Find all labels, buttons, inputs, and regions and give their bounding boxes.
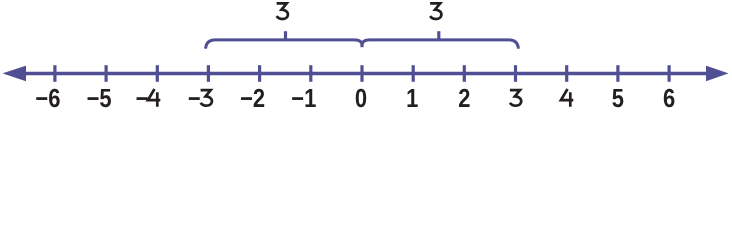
brace right middle tick	[437, 31, 440, 41]
tick 3	[514, 65, 517, 82]
tick -5	[104, 65, 107, 82]
tick -2	[258, 65, 261, 82]
brace right (0 to 3)	[362, 40, 518, 49]
brace left middle tick	[284, 31, 287, 41]
label 3 (left brace)	[277, 3, 288, 19]
tick -4	[156, 65, 159, 82]
tick 0	[360, 65, 363, 82]
tick 6	[667, 65, 670, 82]
tick -1	[309, 65, 312, 82]
svg-text:6: 6	[663, 84, 675, 113]
svg-text:−: −	[136, 84, 149, 113]
tick 2	[463, 65, 466, 82]
left arrowhead	[3, 66, 27, 82]
svg-text:5: 5	[612, 84, 624, 113]
label 4	[561, 89, 573, 107]
svg-text:−2: −2	[240, 84, 265, 113]
tick -6	[53, 65, 56, 82]
tick 4	[565, 65, 568, 82]
label 3 (right brace)	[430, 3, 441, 19]
tick 1	[412, 65, 415, 82]
brace junction stub	[360, 43, 363, 47]
tick -3	[207, 65, 210, 82]
svg-text:−6: −6	[35, 84, 60, 113]
svg-text:−5: −5	[87, 84, 112, 113]
svg-text:1: 1	[406, 84, 418, 113]
right arrowhead	[706, 66, 729, 82]
svg-text:−1: −1	[291, 84, 316, 113]
label 3	[510, 90, 521, 106]
tick 5	[616, 65, 619, 82]
svg-text:2: 2	[458, 84, 470, 113]
number line	[12, 72, 720, 75]
brace left (-3 to 0)	[206, 40, 362, 49]
svg-text:0: 0	[355, 84, 367, 113]
svg-text:−: −	[188, 84, 201, 113]
